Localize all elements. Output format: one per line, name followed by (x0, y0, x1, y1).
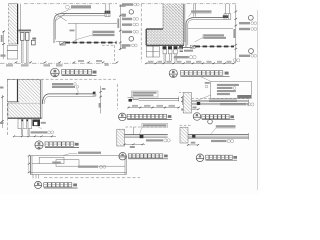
caption detail marker circle (51, 68, 60, 77)
end blocking black (197, 102, 200, 105)
wire top dash-dot boundary (141, 3, 237, 5)
bottom lines (30, 171, 126, 173)
caption marker circle (35, 141, 43, 149)
cove arc (43, 94, 50, 104)
board lines (188, 134, 249, 136)
caption text (44, 183, 72, 187)
curtain track boxes (21, 32, 25, 40)
caption text (62, 70, 92, 75)
leader note box (142, 124, 168, 128)
caption B1 (119, 153, 126, 160)
caption text (180, 71, 222, 76)
caption B2 (196, 154, 204, 162)
bottom left end marks (32, 175, 34, 179)
leader rows (209, 100, 237, 102)
marks left of notes box (205, 82, 210, 84)
bottom dimension line (146, 62, 234, 64)
ceiling top line (30, 155, 126, 157)
cove vertical face (53, 21, 55, 43)
wire dashed border right (117, 84, 119, 109)
wire dashed border top (7, 78, 117, 80)
cove bottom step (56, 41, 66, 45)
right dim vertical (235, 5, 237, 64)
wire dashed region border right (102, 44, 115, 46)
hanger rod (75, 24, 77, 42)
board lines (125, 134, 168, 136)
right end tick (248, 133, 250, 140)
rails hanging (21, 129, 23, 136)
wire dashed border left (140, 4, 142, 62)
mid leader note rows (204, 34, 225, 36)
leader text right (146, 139, 163, 141)
ceiling ledge (62, 13, 105, 15)
dashed line right (192, 98, 251, 100)
right keynotes (248, 15, 253, 20)
wall W2 hatched upper (19, 80, 40, 102)
soffit edge lines (18, 29, 31, 31)
inner ceiling line (188, 28, 233, 30)
framing boxes below wall (146, 46, 153, 57)
leader note box (132, 91, 159, 97)
wall bottom thick border (8, 117, 42, 119)
right end verticals (124, 156, 126, 175)
ledge end block hatched (105, 11, 110, 17)
notes box right (211, 81, 252, 98)
caption marker circle (35, 181, 42, 188)
pier hatched (183, 93, 191, 113)
curtain rails hanging (21, 40, 23, 63)
hanger rod (132, 127, 134, 135)
section symbol box (31, 40, 35, 45)
dim vertical right (100, 86, 102, 114)
keynote column between details (122, 3, 133, 6)
end blocking black (192, 135, 195, 138)
caption text (45, 142, 74, 146)
inner lines (32, 163, 39, 165)
pier hatched (180, 127, 188, 143)
wire dashed border top (180, 124, 192, 126)
gypsum board dash-dot (196, 45, 235, 47)
wall inner thick borders (146, 28, 163, 30)
cove arc with braces (54, 14, 62, 22)
left end verticals (29, 156, 31, 175)
gypsum board dash-dot (66, 42, 117, 44)
keynote circle above (208, 119, 213, 124)
hanger rods below (163, 54, 165, 63)
studs leader text (174, 56, 189, 58)
left ticks (28, 155, 30, 157)
right small dim (181, 96, 183, 105)
wire dashed bottom (44, 177, 140, 179)
wall face lines (39, 80, 41, 119)
sheet border right faint (256, 10, 258, 190)
small dim (192, 108, 199, 110)
bottom dimension line (0, 62, 117, 64)
caption A1 (119, 113, 127, 121)
misc marks right of studs (178, 48, 183, 50)
wall W1 hatched (9, 4, 18, 44)
left edge dim (2, 95, 4, 128)
leader text lower right (181, 108, 189, 110)
track boxes below studs (163, 49, 167, 53)
leader text top (78, 152, 101, 154)
curtain tracks below wall (18, 119, 22, 129)
end blocking black (140, 135, 144, 138)
left end profile (128, 97, 139, 99)
wire top dash-dot boundary (24, 3, 117, 5)
curtain rail section black (32, 119, 40, 126)
board lines (192, 99, 249, 101)
ceiling ledge (196, 17, 225, 19)
wall W2 hatched lower (8, 103, 40, 118)
wall face thick border (17, 4, 19, 45)
caption A2 (193, 113, 201, 121)
wire dashed border left (6, 79, 8, 136)
pier hatched (117, 129, 125, 146)
board lines (139, 97, 179, 99)
dim line (129, 107, 179, 109)
studs row black (163, 46, 167, 49)
wall W3 hatched L-shape (146, 4, 184, 46)
wall face channel (184, 4, 186, 42)
inner ceiling line (68, 23, 117, 25)
dim line (188, 144, 198, 146)
boxes below wall (7, 46, 17, 51)
bottom dimension line (14, 135, 56, 137)
leader text right with circles (78, 166, 98, 168)
top leader note (191, 10, 211, 12)
leader text rows (52, 83, 73, 85)
beam notch box (7, 80, 17, 102)
cove bottom step (182, 47, 190, 49)
keynote 1 circle + label (66, 5, 70, 9)
cove arc (186, 18, 196, 25)
wire dashed border top (125, 126, 167, 128)
ledge end block hatched (224, 14, 231, 20)
dim line (125, 143, 146, 145)
ceiling lines (50, 93, 96, 95)
leader note top (216, 125, 236, 127)
cove step boxes (39, 157, 64, 163)
caption marker circle (169, 69, 177, 77)
right dim line vertical (119, 5, 121, 50)
leader text below (211, 140, 227, 142)
wire wall finish line (20, 4, 22, 32)
leader text rows mid (93, 31, 115, 33)
dim text row with keynote circles (31, 131, 47, 133)
left dimension line (3, 31, 5, 59)
cove vertical face (185, 24, 187, 47)
sheet edge marks left (0, 87, 4, 89)
